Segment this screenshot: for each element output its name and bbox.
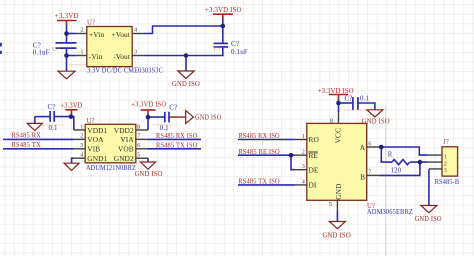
svg-text:RS485 RE ISO: RS485 RE ISO — [238, 148, 279, 156]
svg-text:RS485 RX: RS485 RX — [12, 132, 42, 140]
svg-text:0.1uF: 0.1uF — [33, 48, 50, 56]
svg-text:3: 3 — [134, 49, 137, 56]
svg-text:7: 7 — [368, 169, 371, 176]
svg-text:VOB: VOB — [118, 145, 134, 154]
svg-text:3: 3 — [80, 142, 83, 149]
svg-text:2: 2 — [302, 149, 305, 156]
svg-text:1: 1 — [80, 123, 83, 130]
svg-text:1: 1 — [80, 49, 83, 56]
svg-text:GND ISO: GND ISO — [172, 80, 200, 88]
svg-text:GND ISO: GND ISO — [322, 232, 351, 240]
svg-text:+Vin: +Vin — [89, 30, 104, 39]
svg-text:3: 3 — [302, 163, 305, 170]
svg-text:+3.3VD: +3.3VD — [61, 101, 83, 109]
svg-text:8: 8 — [137, 123, 140, 130]
svg-text:U?: U? — [87, 118, 95, 125]
svg-text:7: 7 — [137, 133, 140, 140]
svg-text:ADUM121N0BRZ: ADUM121N0BRZ — [86, 164, 136, 172]
svg-text:RS485 RX ISO: RS485 RX ISO — [238, 132, 279, 140]
svg-text:4: 4 — [80, 152, 83, 159]
svg-text:+Vout: +Vout — [112, 30, 131, 39]
svg-text:VCC: VCC — [334, 128, 343, 144]
svg-text:+3.3VD ISO: +3.3VD ISO — [318, 87, 354, 95]
svg-text:GND ISO: GND ISO — [135, 170, 163, 178]
svg-text:C?: C? — [48, 103, 56, 111]
svg-text:+3.3VD ISO: +3.3VD ISO — [205, 6, 242, 14]
svg-text:VOA: VOA — [87, 135, 104, 144]
svg-text:DE: DE — [309, 165, 319, 174]
svg-text:VIA: VIA — [120, 135, 134, 144]
svg-text:C?: C? — [169, 103, 177, 111]
svg-text:DI: DI — [309, 181, 317, 190]
svg-text:8: 8 — [330, 117, 333, 124]
svg-text:4: 4 — [302, 178, 305, 185]
svg-text:GND ISO: GND ISO — [415, 215, 442, 223]
svg-text:-Vin: -Vin — [89, 52, 103, 61]
svg-text:B: B — [360, 172, 365, 181]
svg-text:C?: C? — [53, 47, 60, 53]
svg-text:R: R — [388, 152, 393, 159]
svg-text:VIB: VIB — [87, 145, 100, 154]
svg-text:J?: J? — [443, 139, 449, 146]
svg-text:C?: C? — [231, 40, 239, 48]
svg-text:-Vout: -Vout — [113, 52, 131, 61]
svg-text:2: 2 — [80, 27, 83, 34]
svg-text:5: 5 — [329, 201, 332, 208]
svg-text:GND: GND — [334, 183, 343, 200]
svg-text:0.1uF: 0.1uF — [231, 48, 248, 56]
svg-text:0.1: 0.1 — [360, 94, 370, 102]
svg-text:C?: C? — [344, 94, 352, 102]
svg-text:6: 6 — [137, 142, 140, 149]
svg-text:0.1: 0.1 — [160, 124, 170, 132]
svg-text:5: 5 — [137, 152, 140, 159]
svg-text:+3.3VD: +3.3VD — [55, 12, 79, 20]
svg-text:GND1: GND1 — [87, 154, 107, 163]
svg-text:ADM3065EBRZ: ADM3065EBRZ — [367, 208, 413, 216]
svg-text:GND2: GND2 — [114, 154, 134, 163]
svg-text:RS485 TX ISO: RS485 TX ISO — [238, 178, 279, 186]
svg-text:U?: U? — [87, 19, 95, 26]
svg-text:RS485 RX ISO: RS485 RX ISO — [156, 132, 198, 140]
svg-text:RO: RO — [309, 135, 320, 144]
svg-text:4: 4 — [134, 27, 137, 34]
svg-text:6: 6 — [368, 140, 371, 147]
svg-text:120: 120 — [391, 167, 402, 174]
svg-text:RS485 TX: RS485 TX — [12, 141, 42, 149]
svg-text:3: 3 — [444, 167, 447, 174]
svg-text:C?: C? — [214, 46, 221, 52]
svg-text:+3.3VD ISO: +3.3VD ISO — [131, 101, 166, 109]
svg-text:GND ISO: GND ISO — [362, 117, 390, 125]
svg-text:GND ISO: GND ISO — [195, 113, 222, 121]
svg-text:VDD1: VDD1 — [87, 126, 107, 135]
svg-text:1: 1 — [302, 133, 305, 140]
svg-text:3.3V DC/DC CME0303S3C: 3.3V DC/DC CME0303S3C — [87, 66, 163, 75]
svg-text:VDD2: VDD2 — [114, 126, 134, 135]
svg-text:0.1: 0.1 — [49, 124, 59, 132]
svg-text:2: 2 — [80, 133, 83, 140]
svg-text:RS485-B: RS485-B — [435, 178, 460, 186]
svg-text:A: A — [360, 143, 366, 152]
svg-text:RS485 TX ISO: RS485 TX ISO — [156, 142, 198, 150]
